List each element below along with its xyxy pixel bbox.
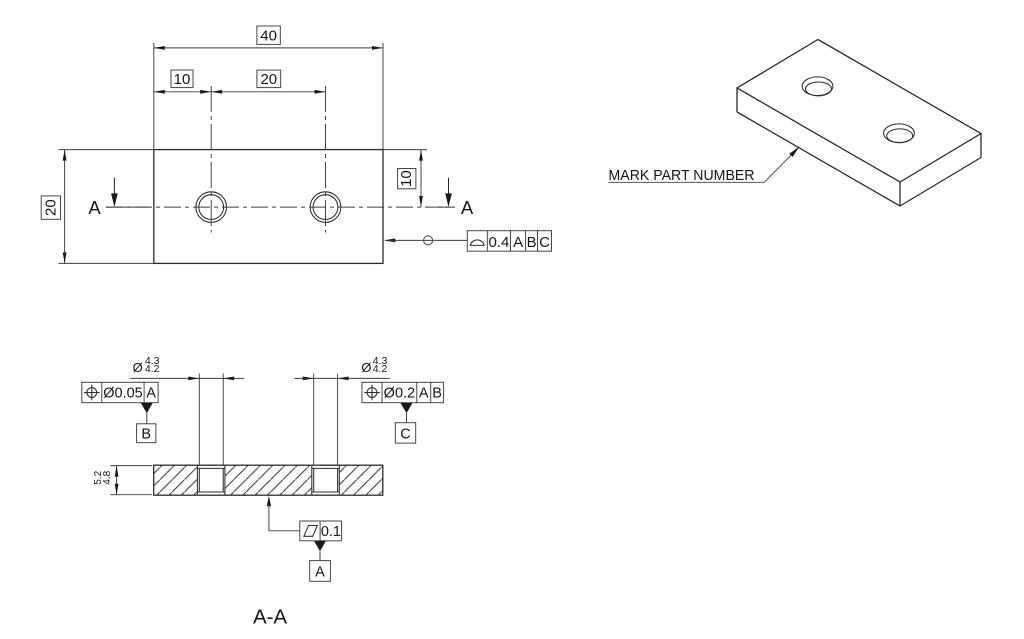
section hole 1 bbox=[197, 465, 225, 495]
datum B symbol bbox=[137, 403, 156, 443]
svg-text:Ø: Ø bbox=[133, 360, 143, 375]
svg-text:20: 20 bbox=[42, 199, 59, 216]
svg-text:B: B bbox=[141, 426, 151, 442]
section arrow right with letter A bbox=[445, 178, 474, 218]
svg-text:B: B bbox=[527, 234, 537, 251]
svg-text:0.1: 0.1 bbox=[321, 524, 341, 540]
dimension 10 (hole to top edge, right) bbox=[383, 150, 427, 208]
hole H1 vertical centerline bbox=[210, 86, 212, 233]
svg-text:4.2: 4.2 bbox=[373, 363, 388, 375]
bottom front-left edge bbox=[737, 112, 900, 206]
svg-text:A: A bbox=[419, 386, 429, 402]
svg-text:40: 40 bbox=[260, 28, 277, 45]
svg-text:4.8: 4.8 bbox=[102, 470, 113, 484]
bottom front-right edge bbox=[900, 158, 981, 207]
dimension 40 bbox=[154, 26, 383, 150]
thickness dimension 5.2/4.8 bbox=[93, 466, 152, 495]
vertical edge east bbox=[980, 134, 982, 158]
position FCF left (true position 0.05 A) bbox=[82, 382, 158, 402]
datum C symbol bbox=[395, 403, 415, 443]
svg-text:A: A bbox=[88, 197, 101, 218]
svg-text:C: C bbox=[539, 234, 550, 251]
svg-text:10: 10 bbox=[174, 71, 191, 88]
dimension 20 (plate height, left) bbox=[41, 150, 154, 264]
iso hole 1 bbox=[802, 77, 833, 96]
svg-text:A: A bbox=[513, 234, 523, 251]
svg-text:4.2: 4.2 bbox=[145, 363, 160, 375]
section hole 2 bbox=[312, 465, 340, 495]
svg-text:20: 20 bbox=[260, 71, 277, 88]
iso hole 2 bbox=[884, 124, 915, 143]
hole H2 circles bbox=[310, 192, 341, 223]
horizontal centerline / cutting plane A-A bbox=[106, 206, 455, 208]
vertical edge south bbox=[899, 182, 901, 206]
surface profile feature control frame 0.4 A B C bbox=[467, 231, 551, 252]
plate outline bbox=[154, 150, 383, 264]
hole 2 diameter dimension bbox=[294, 355, 390, 465]
svg-text:Ø0.05: Ø0.05 bbox=[103, 386, 143, 402]
svg-text:Ø: Ø bbox=[361, 360, 371, 375]
section bar with hatching bbox=[154, 465, 383, 495]
top face bbox=[737, 40, 981, 183]
MARK PART NUMBER note with leader bbox=[609, 147, 800, 184]
svg-text:Ø0.2: Ø0.2 bbox=[384, 386, 415, 402]
flatness FCF 0.1 bbox=[300, 521, 342, 541]
surface profile leader bbox=[384, 236, 468, 245]
vertical edge west bbox=[736, 88, 738, 112]
svg-text:MARK PART NUMBER: MARK PART NUMBER bbox=[609, 168, 755, 184]
svg-text:B: B bbox=[432, 386, 442, 402]
svg-text:10: 10 bbox=[398, 170, 415, 187]
section arrow left with letter A bbox=[88, 178, 117, 218]
svg-text:A-A: A-A bbox=[253, 606, 287, 629]
hole H2 vertical centerline bbox=[325, 86, 327, 233]
svg-text:C: C bbox=[400, 426, 410, 442]
svg-text:A: A bbox=[315, 565, 325, 581]
svg-text:0.4: 0.4 bbox=[488, 234, 509, 251]
svg-text:A: A bbox=[461, 197, 474, 218]
dimension 20 (hole spacing) bbox=[211, 70, 325, 94]
flatness callout leader bbox=[267, 496, 300, 531]
hole 1 diameter dimension bbox=[130, 355, 244, 465]
position FCF right (true position 0.2 A B) bbox=[362, 382, 444, 402]
dimension 10 (left hole offset) bbox=[154, 70, 211, 94]
hole H1 circles bbox=[196, 192, 227, 223]
datum A symbol bbox=[310, 541, 331, 581]
svg-text:A: A bbox=[146, 386, 156, 402]
